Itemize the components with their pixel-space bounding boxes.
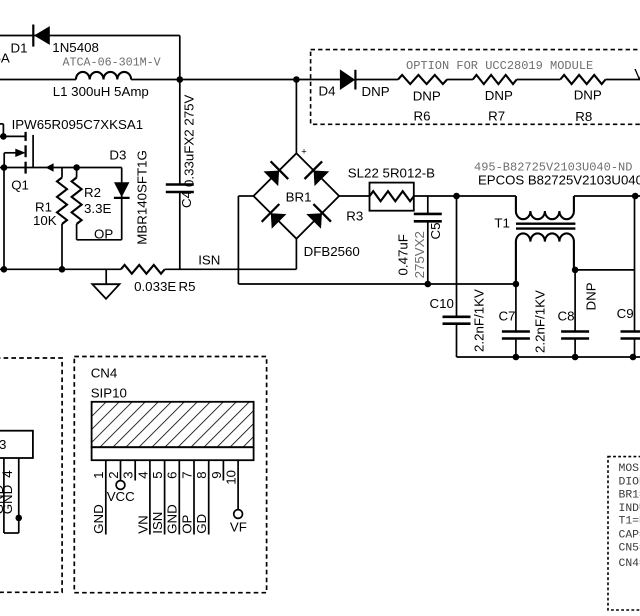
- svg-text:R7: R7: [488, 109, 505, 124]
- svg-text:5A: 5A: [0, 51, 10, 66]
- svg-text:Q1: Q1: [11, 177, 29, 192]
- svg-text:R8: R8: [575, 109, 592, 124]
- svg-text:3: 3: [121, 471, 136, 478]
- svg-text:OP: OP: [179, 514, 194, 533]
- svg-text:C4: C4: [179, 191, 194, 208]
- svg-text:6: 6: [165, 471, 180, 478]
- svg-text:VCC: VCC: [107, 489, 135, 504]
- svg-text:DNP: DNP: [574, 88, 602, 103]
- svg-text:ISN: ISN: [198, 252, 220, 267]
- svg-text:275VX2: 275VX2: [412, 231, 427, 278]
- svg-text:SIP10: SIP10: [91, 385, 127, 400]
- svg-text:T1=EPCOS B82725V2103U0: T1=EPCOS B82725V2103U0: [619, 515, 640, 527]
- svg-text:C8: C8: [558, 309, 575, 324]
- svg-text:SL22 5R012-B: SL22 5R012-B: [348, 166, 435, 181]
- svg-text:DNP: DNP: [485, 88, 513, 103]
- svg-text:DIODE=MBR140SFT1G: DIODE=MBR140SFT1G: [619, 476, 640, 488]
- svg-text:ATCA-06-301M-V: ATCA-06-301M-V: [63, 56, 161, 70]
- svg-text:DNP: DNP: [362, 84, 390, 99]
- svg-text:GND: GND: [91, 504, 106, 534]
- svg-text:R2: R2: [84, 185, 101, 200]
- svg-text:3: 3: [0, 437, 6, 452]
- svg-text:MBR140SFT1G: MBR140SFT1G: [134, 150, 149, 245]
- svg-text:OP: OP: [94, 226, 113, 241]
- svg-text:C10: C10: [430, 296, 454, 311]
- svg-text:4: 4: [0, 470, 15, 478]
- svg-text:BR1: BR1: [286, 190, 312, 205]
- svg-text:D4: D4: [319, 84, 336, 99]
- svg-text:0.47uF: 0.47uF: [395, 234, 410, 275]
- svg-text:2: 2: [106, 471, 121, 478]
- svg-text:8: 8: [194, 471, 209, 478]
- svg-text:0.033E: 0.033E: [134, 279, 176, 294]
- svg-text:1: 1: [91, 471, 106, 478]
- svg-text:R5: R5: [179, 279, 196, 294]
- svg-text:5: 5: [150, 471, 165, 478]
- svg-text:OPTION FOR UCC28019 MODULE: OPTION FOR UCC28019 MODULE: [406, 59, 593, 73]
- svg-text:2.2nF/1KV: 2.2nF/1KV: [533, 290, 548, 353]
- svg-text:CAP=0.33uFX2 275V: CAP=0.33uFX2 275V: [619, 530, 640, 542]
- svg-text:3.3E: 3.3E: [84, 201, 111, 216]
- svg-text:CN4=SIP10: CN4=SIP10: [619, 558, 640, 570]
- svg-text:CN5=SIP4: CN5=SIP4: [619, 543, 640, 555]
- svg-text:R6: R6: [414, 109, 431, 124]
- svg-text:1N5408: 1N5408: [52, 40, 99, 55]
- svg-text:VB: VB: [634, 66, 640, 83]
- svg-text:ISN: ISN: [150, 512, 165, 534]
- svg-text:C9: C9: [617, 306, 634, 321]
- svg-text:BR1=DFB2560: BR1=DFB2560: [619, 490, 640, 502]
- svg-text:D1: D1: [11, 41, 28, 56]
- svg-text:DFB2560: DFB2560: [304, 244, 360, 259]
- svg-text:VF: VF: [230, 519, 247, 534]
- svg-text:GND: GND: [165, 504, 180, 534]
- svg-text:DNP: DNP: [413, 89, 441, 104]
- svg-text:4: 4: [135, 471, 150, 478]
- svg-text:T1: T1: [494, 216, 510, 231]
- svg-text:C5: C5: [428, 223, 443, 240]
- svg-text:GND: GND: [0, 485, 6, 515]
- svg-text:EPCOS B82725V2103U040: EPCOS B82725V2103U040: [478, 173, 640, 188]
- svg-text:7: 7: [179, 471, 194, 478]
- svg-text:9: 9: [209, 471, 224, 478]
- svg-text:MOSFET=IPW65R095C7XKSA1: MOSFET=IPW65R095C7XKSA1: [619, 463, 640, 475]
- svg-text:DNP: DNP: [584, 282, 599, 310]
- svg-text:0.33uFX2 275V: 0.33uFX2 275V: [181, 94, 196, 187]
- svg-text:GD: GD: [194, 514, 209, 534]
- svg-text:VN: VN: [135, 515, 150, 533]
- svg-text:L1 300uH 5Amp: L1 300uH 5Amp: [53, 84, 149, 99]
- svg-text:C7: C7: [499, 308, 516, 323]
- svg-text:D3: D3: [109, 148, 126, 163]
- svg-text:CN4: CN4: [91, 366, 118, 381]
- svg-text:IPW65R095C7XKSA1: IPW65R095C7XKSA1: [12, 117, 144, 132]
- svg-text:2.2nF/1KV: 2.2nF/1KV: [472, 289, 487, 352]
- svg-text:R3: R3: [346, 209, 363, 224]
- svg-text:INDUCTOR=ATCA-06-301M: INDUCTOR=ATCA-06-301M: [619, 503, 640, 515]
- svg-text:10: 10: [224, 470, 239, 485]
- svg-text:10K: 10K: [33, 213, 57, 228]
- svg-text:+: +: [301, 146, 307, 157]
